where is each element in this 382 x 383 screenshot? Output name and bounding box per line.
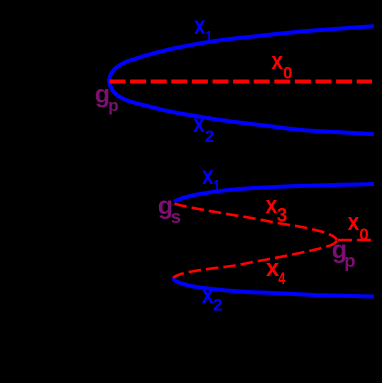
- svg-text:x: x: [271, 48, 283, 75]
- svg-text:s: s: [171, 206, 181, 227]
- svg-text:p: p: [108, 96, 118, 115]
- svg-text:x: x: [202, 281, 214, 309]
- svg-text:x: x: [348, 209, 360, 236]
- svg-text:1: 1: [205, 28, 212, 47]
- svg-text:3: 3: [277, 206, 288, 227]
- svg-text:0: 0: [283, 64, 292, 83]
- svg-text:0: 0: [359, 225, 368, 244]
- svg-text:4: 4: [278, 269, 285, 288]
- svg-text:2: 2: [213, 296, 222, 315]
- svg-text:2: 2: [205, 127, 214, 146]
- svg-text:p: p: [344, 250, 355, 271]
- svg-text:1: 1: [213, 177, 220, 196]
- svg-text:x: x: [193, 110, 205, 138]
- svg-text:x: x: [194, 12, 206, 40]
- svg-text:x: x: [202, 162, 214, 190]
